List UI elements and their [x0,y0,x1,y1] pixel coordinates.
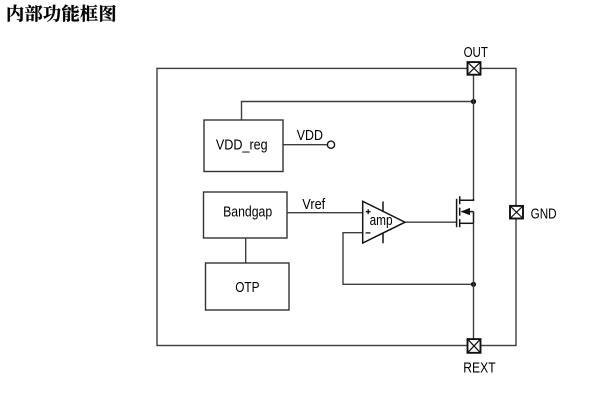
block OTP [206,263,290,310]
svg-text:VDD_reg: VDD_reg [216,137,268,154]
node junction dot on REXT net [471,282,476,287]
svg-text:OUT: OUT [464,44,488,61]
terminal circle VDD [327,141,334,148]
transistor Q1 channel segment drain [459,196,461,204]
svg-text:Bandgap: Bandgap [223,204,272,221]
wire feedback from op-amp - input to REXT net [343,233,474,285]
wire Bandgap to OTP [245,238,247,263]
transistor Q1 channel segment source [459,219,461,227]
pin OUT square [468,62,481,75]
svg-text:REXT: REXT [463,359,495,376]
op-amp + input marker [366,209,371,214]
wire drain up to OUT pin [473,75,475,200]
svg-text:amp: amp [370,212,393,229]
block Bandgap [204,192,288,238]
op-amp U1 triangle [363,201,405,243]
transistor Q1 source connection [460,222,474,224]
wire op-amp output to gate [405,221,457,223]
svg-text:GND: GND [531,206,557,223]
transistor Q1 channel segment body [459,208,461,216]
wire VDD_reg top to OUT net [242,102,474,121]
op-amp negative supply pin [382,233,384,244]
transistor Q1 gate line [456,199,458,227]
node junction dot on OUT net [471,99,476,104]
pin GND cross [510,206,523,219]
svg-text:Vref: Vref [302,196,326,213]
wire Vref from Bandgap to op-amp + input [287,212,363,214]
wire VDD output [283,144,327,146]
transistor Q1 body arrow [461,208,470,215]
transistor Q1 body-source tie [473,212,475,224]
transistor Q1 drain connection [460,199,474,200]
op-amp - input marker [366,232,371,234]
pin REXT square [468,339,481,353]
pin REXT cross [468,339,481,353]
transistor Q1 body connection with arrow [462,211,474,213]
pin GND square [510,206,523,219]
svg-text:OTP: OTP [235,279,259,296]
block VDD_reg [204,120,283,172]
op-amp positive supply pin [382,202,384,213]
wire source down to REXT pin [473,223,475,339]
svg-text:VDD: VDD [297,127,323,144]
chip boundary rectangle [157,68,516,345]
pin OUT cross [468,62,481,75]
title 内部功能框图 [8,5,116,22]
